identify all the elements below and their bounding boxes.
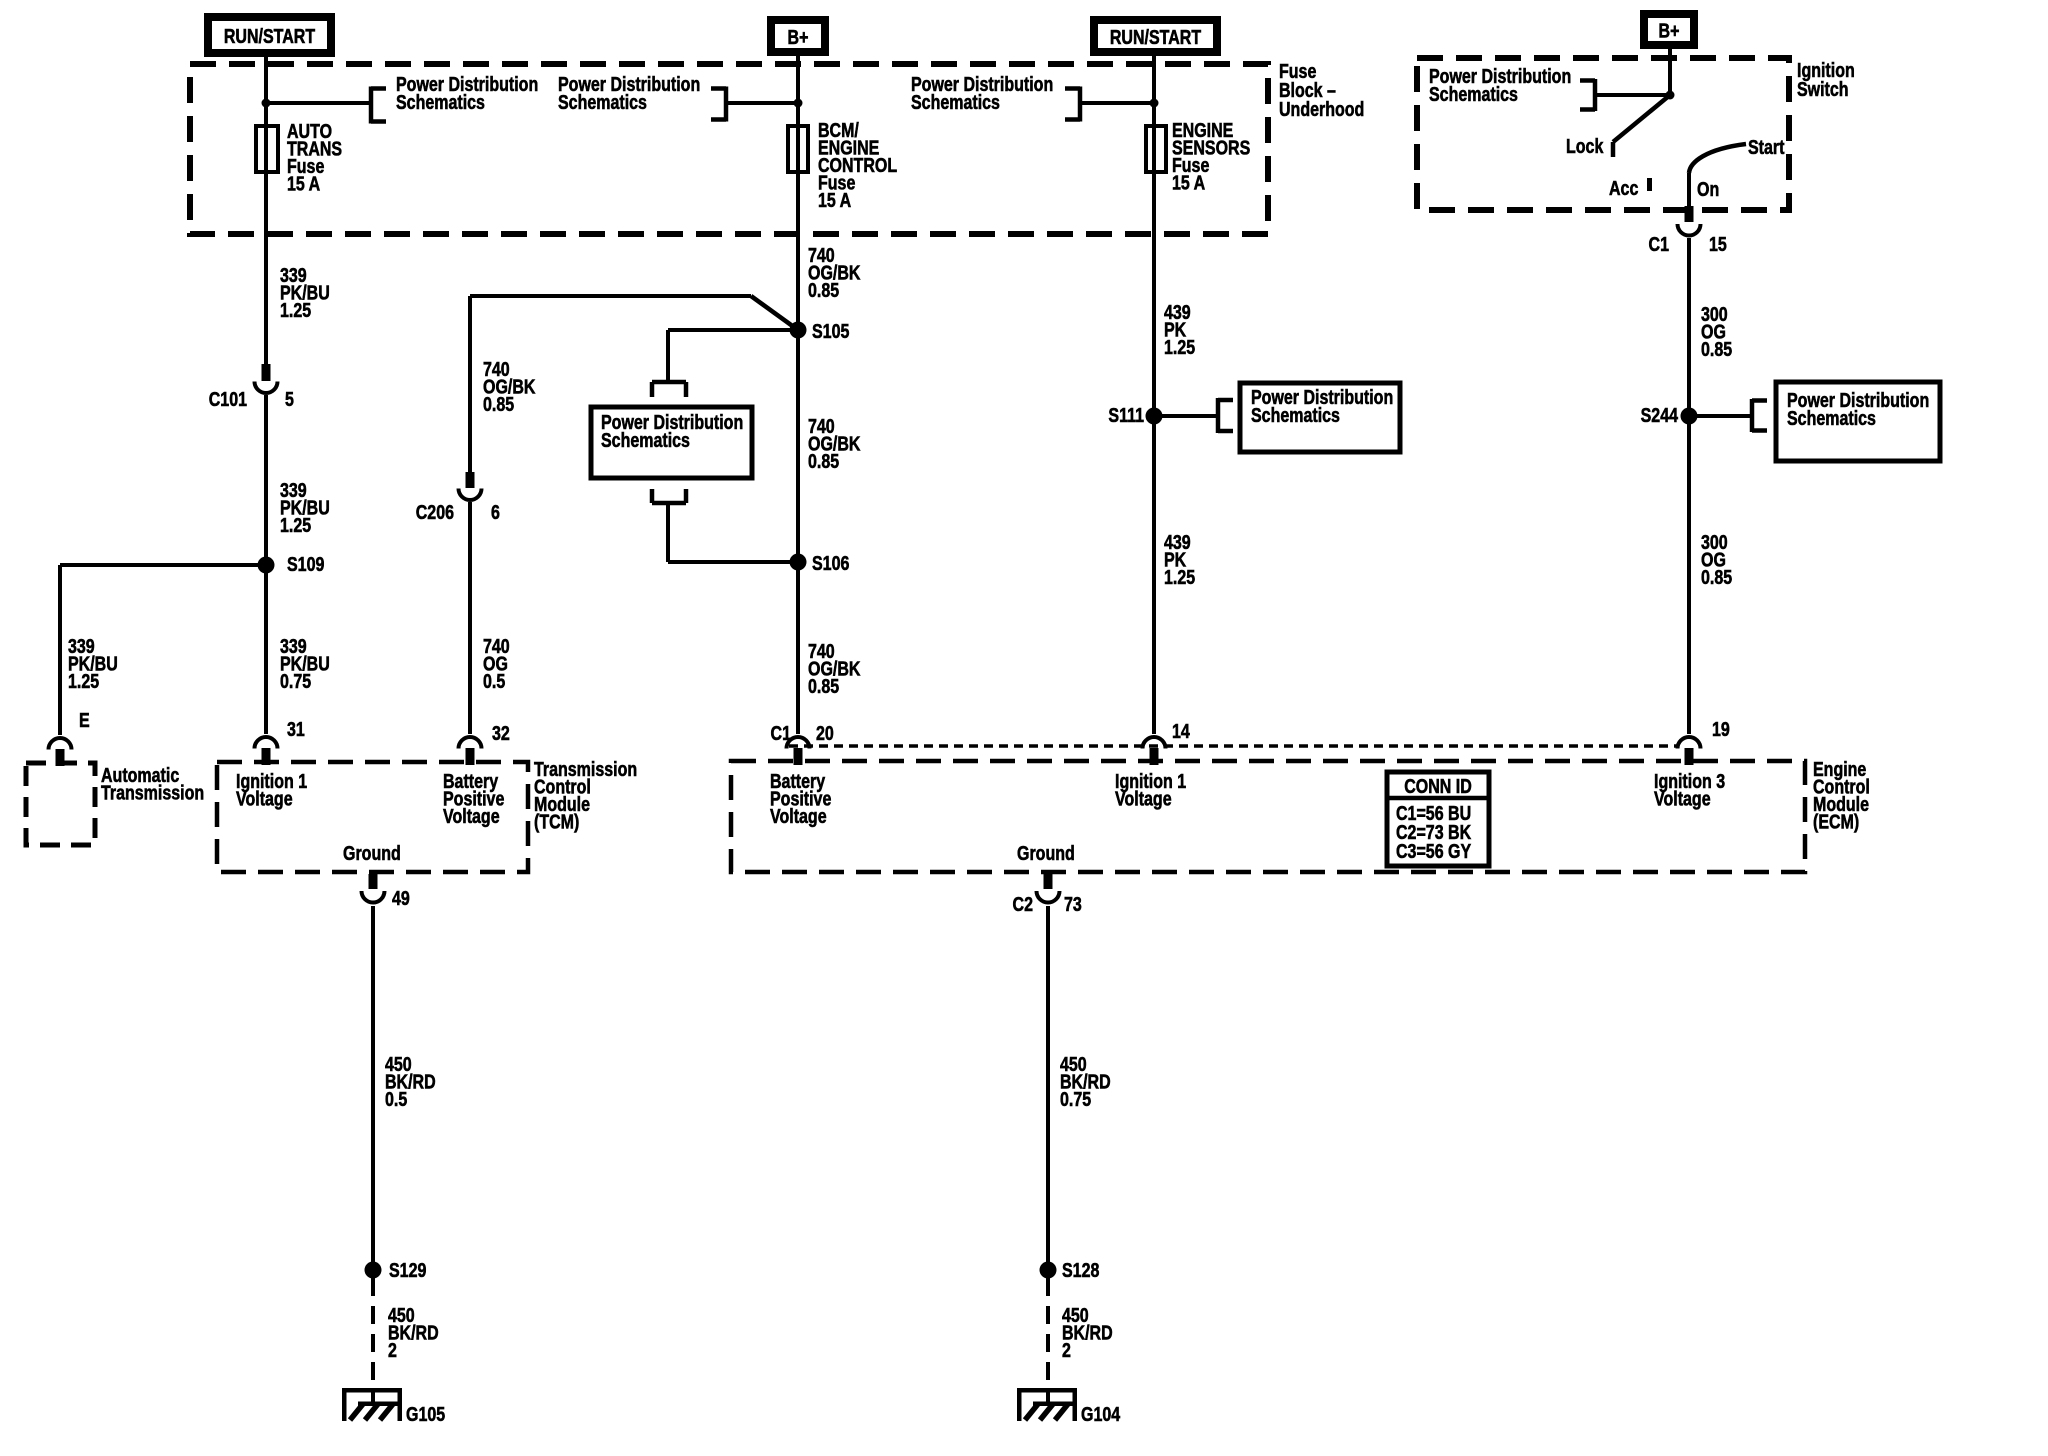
TCM dashed box <box>217 762 528 872</box>
ECM ground pin C2-73 <box>1044 874 1053 889</box>
wire On position down <box>1687 173 1691 206</box>
label 740 OG/BK 0.85 (mid W3) <box>808 415 860 472</box>
label 740 OG/BK 0.85 (lower W3) <box>808 640 860 697</box>
middle Power Distribution Schematics solid box <box>591 407 752 478</box>
svg-text:300OG0.85: 300OG0.85 <box>1701 531 1732 588</box>
svg-text:450BK/RD2: 450BK/RD2 <box>1062 1304 1113 1361</box>
TCM ground pin 49 <box>369 874 378 889</box>
fuse F1 AUTO TRANS 15A <box>256 126 278 172</box>
splice S244 <box>1681 408 1698 425</box>
label ENGINE SENSORS Fuse 15 A <box>1172 119 1250 194</box>
label Lock <box>1566 135 1604 157</box>
svg-text:Power DistributionSchematics: Power DistributionSchematics <box>1429 65 1571 105</box>
label 740 OG/BK 0.85 (W2) <box>483 358 535 415</box>
bracket B (Power Distribution Schematics) <box>724 87 729 122</box>
svg-text:AUTOTRANSFuse15 A: AUTOTRANSFuse15 A <box>287 120 342 195</box>
branch S105 to PDS box <box>668 328 798 332</box>
splice S105 <box>790 322 807 339</box>
terminal RUN/START (right) <box>1094 20 1217 52</box>
wire W3 B+ to ECM pin 20 <box>796 56 800 734</box>
terminal B+ (ignition) <box>1644 14 1694 45</box>
ECM pin 14 connector <box>1143 737 1166 748</box>
wire W5 B+ into ignition switch <box>1668 49 1672 95</box>
ECM dashed box <box>731 761 1805 872</box>
label 740 OG/BK 0.85 (upper W3) <box>808 244 860 301</box>
label Power Distribution Schematics B <box>558 73 700 113</box>
svg-text:IgnitionSwitch: IgnitionSwitch <box>1797 59 1855 100</box>
svg-text:Ignition 3Voltage: Ignition 3Voltage <box>1654 770 1725 810</box>
wire ECM ground to S128 <box>1046 906 1050 1270</box>
svg-text:Ignition 1Voltage: Ignition 1Voltage <box>236 770 307 810</box>
svg-text:S106: S106 <box>812 552 849 574</box>
label Acc <box>1609 177 1638 199</box>
svg-text:S244: S244 <box>1641 404 1678 426</box>
connector C206 pin 6 <box>466 472 475 488</box>
label 339 PK/BU 1.25 (branch) <box>68 635 118 692</box>
svg-text:Power DistributionSchematics: Power DistributionSchematics <box>601 411 743 451</box>
label 339 PK/BU 0.75 <box>280 635 330 692</box>
svg-text:740OG/BK0.85: 740OG/BK0.85 <box>808 640 860 697</box>
wire W2 C206 to TCM pin 32 <box>468 502 472 734</box>
junction node W4 in fuse block <box>1150 99 1159 108</box>
bracket C (Power Distribution Schematics) <box>1078 87 1083 122</box>
connector C1 pin 15 <box>1685 206 1694 222</box>
svg-text:S129: S129 <box>389 1259 426 1281</box>
bracket C wire <box>1080 101 1154 105</box>
label Fuse Block - Underhood <box>1279 60 1364 120</box>
svg-text:20: 20 <box>816 722 834 744</box>
svg-text:S128: S128 <box>1062 1259 1099 1281</box>
splice S129 <box>365 1262 382 1279</box>
label 450 BK/RD 2 (right) <box>1062 1304 1113 1361</box>
label Automatic Transmission <box>101 764 204 804</box>
svg-text:32: 32 <box>492 722 510 744</box>
label 450 BK/RD 2 (left) <box>388 1304 439 1361</box>
wire W1 RUN/START to C101 <box>264 57 268 364</box>
svg-text:19: 19 <box>1712 718 1730 740</box>
svg-text:339PK/BU1.25: 339PK/BU1.25 <box>280 264 330 321</box>
svg-text:Power DistributionSchematics: Power DistributionSchematics <box>396 73 538 113</box>
S111 Power Distribution Schematics solid box <box>1240 383 1400 452</box>
connector E into automatic transmission <box>49 738 72 750</box>
wire W1 tap to bracket A <box>266 101 371 105</box>
label 339 PK/BU 1.25 (upper W1) <box>280 264 330 321</box>
svg-text:C1: C1 <box>1649 233 1669 255</box>
svg-text:AutomaticTransmission: AutomaticTransmission <box>101 764 204 804</box>
terminal RUN/START (left) <box>208 17 331 53</box>
switch arc to Start <box>1689 144 1746 173</box>
connector C101 pin 5 <box>262 364 271 381</box>
svg-text:450BK/RD0.75: 450BK/RD0.75 <box>1060 1053 1111 1110</box>
svg-text:439PK1.25: 439PK1.25 <box>1164 531 1195 588</box>
terminal B+ (left) <box>771 20 825 52</box>
svg-text:300OG0.85: 300OG0.85 <box>1701 303 1732 360</box>
svg-text:S111: S111 <box>1108 404 1144 426</box>
label 450 BK/RD 0.5 <box>385 1053 436 1110</box>
svg-text:RUN/START: RUN/START <box>224 25 315 47</box>
svg-text:On: On <box>1697 178 1719 200</box>
label Engine Control Module (ECM) <box>1813 758 1870 833</box>
svg-text:TransmissionControlModule(TCM): TransmissionControlModule(TCM) <box>534 758 637 833</box>
fuse F3 ENGINE SENSORS 15A <box>1146 126 1166 172</box>
splice S111 <box>1146 408 1163 425</box>
bottom bracket of middle PDS box <box>652 501 686 506</box>
TCM pin 32 connector <box>459 737 482 748</box>
svg-text:S105: S105 <box>812 320 849 342</box>
svg-text:B+: B+ <box>788 26 809 48</box>
label Power Distribution Schematics C <box>911 73 1053 113</box>
svg-text:6: 6 <box>491 501 500 523</box>
bracket D (Power Distribution Schematics) <box>1593 79 1598 111</box>
svg-text:C2: C2 <box>1013 893 1033 915</box>
wire W2 from S105 branch to C206 <box>468 296 472 472</box>
svg-text:439PK1.25: 439PK1.25 <box>1164 301 1195 358</box>
label Transmission Control Module (TCM) <box>534 758 637 833</box>
svg-text:15: 15 <box>1709 233 1727 255</box>
label Start <box>1748 136 1784 158</box>
label 300 OG 0.85 (lower W5) <box>1701 531 1732 588</box>
TCM pin 31 connector <box>255 737 278 748</box>
svg-text:339PK/BU1.25: 339PK/BU1.25 <box>68 635 118 692</box>
ignition switch dashed box <box>1417 58 1789 210</box>
svg-text:Power DistributionSchematics: Power DistributionSchematics <box>558 73 700 113</box>
svg-text:Lock: Lock <box>1566 135 1604 157</box>
wire branch S109 to E <box>60 563 266 567</box>
wire S244 to ECM pin 19 <box>1687 416 1691 734</box>
bracket D wire <box>1595 93 1670 97</box>
splice S109 <box>258 557 275 574</box>
label Ground (TCM) <box>343 842 401 864</box>
dashed wire S128 to G104 <box>1046 1278 1050 1390</box>
svg-text:C206: C206 <box>416 501 454 523</box>
ECM pin C1-20 connector <box>787 737 810 748</box>
svg-text:740OG/BK0.85: 740OG/BK0.85 <box>808 244 860 301</box>
svg-text:5: 5 <box>285 388 294 410</box>
svg-text:31: 31 <box>287 718 305 740</box>
svg-text:339PK/BU1.25: 339PK/BU1.25 <box>280 479 330 536</box>
svg-text:CONN ID: CONN ID <box>1404 775 1472 797</box>
svg-text:FuseBlock –Underhood: FuseBlock –Underhood <box>1279 60 1364 120</box>
label Battery Positive Voltage (ECM) <box>770 770 831 827</box>
svg-text:450BK/RD0.5: 450BK/RD0.5 <box>385 1053 436 1110</box>
svg-text:73: 73 <box>1064 893 1082 915</box>
svg-text:450BK/RD2: 450BK/RD2 <box>388 1304 439 1361</box>
svg-text:Ignition 1Voltage: Ignition 1Voltage <box>1115 770 1186 810</box>
ground G105 <box>371 1389 375 1404</box>
label Ground (ECM) <box>1017 842 1075 864</box>
label Ignition Switch <box>1797 59 1855 100</box>
svg-text:Ground: Ground <box>343 842 401 864</box>
bracket at S244 PDS box <box>1750 399 1755 432</box>
svg-text:S109: S109 <box>287 553 324 575</box>
label 740 OG 0.5 <box>483 635 510 692</box>
label BCM/ENGINE CONTROL Fuse 15 A <box>818 119 897 211</box>
wire W4 RUN/START to ECM pin 14 <box>1152 56 1156 734</box>
label 450 BK/RD 0.75 <box>1060 1053 1111 1110</box>
svg-text:E: E <box>79 709 90 731</box>
ground G104 <box>1046 1389 1050 1404</box>
svg-text:B+: B+ <box>1659 20 1680 42</box>
label On <box>1697 178 1719 200</box>
svg-text:740OG0.5: 740OG0.5 <box>483 635 510 692</box>
label 439 PK 1.25 (lower W4) <box>1164 531 1195 588</box>
bracket B wire <box>726 101 798 105</box>
wire middle PDS box to S106 <box>666 503 670 562</box>
dashed wire S129 to G105 <box>371 1278 375 1390</box>
svg-text:Power DistributionSchematics: Power DistributionSchematics <box>1787 389 1929 429</box>
label Power Distribution Schematics D <box>1429 65 1571 105</box>
svg-text:RUN/START: RUN/START <box>1110 26 1201 48</box>
label 339 PK/BU 1.25 (mid W1) <box>280 479 330 536</box>
Acc contact tick <box>1647 178 1652 191</box>
connector C1 dotted line <box>789 744 1677 748</box>
label Ignition 1 Voltage (TCM) <box>236 770 307 810</box>
label 300 OG 0.85 (upper W5) <box>1701 303 1732 360</box>
svg-text:740OG/BK0.85: 740OG/BK0.85 <box>808 415 860 472</box>
automatic transmission dashed box <box>26 763 95 845</box>
svg-text:EngineControlModule(ECM): EngineControlModule(ECM) <box>1813 758 1870 833</box>
svg-text:Start: Start <box>1748 136 1784 158</box>
svg-text:740OG/BK0.85: 740OG/BK0.85 <box>483 358 535 415</box>
wire W1 C101 to S109 <box>264 395 268 565</box>
svg-text:Ground: Ground <box>1017 842 1075 864</box>
splice S128 <box>1040 1262 1057 1279</box>
label AUTO TRANS Fuse 15 A <box>287 120 342 195</box>
branch S244 to PDS box <box>1689 414 1752 418</box>
svg-text:Power DistributionSchematics: Power DistributionSchematics <box>911 73 1053 113</box>
label Ignition 1 Voltage (ECM) <box>1115 770 1186 810</box>
S244 Power Distribution Schematics solid box <box>1776 382 1940 461</box>
junction node ignition <box>1666 91 1675 100</box>
bracket at S111 PDS box <box>1216 398 1221 433</box>
svg-text:ENGINESENSORSFuse15 A: ENGINESENSORSFuse15 A <box>1172 119 1250 194</box>
svg-text:14: 14 <box>1172 720 1190 742</box>
switch blade to Lock <box>1613 95 1670 142</box>
bracket A (Power Distribution Schematics) <box>369 87 374 124</box>
svg-text:C3=56 GY: C3=56 GY <box>1396 840 1471 862</box>
ECM pin 19 connector <box>1678 737 1701 748</box>
svg-text:G105: G105 <box>406 1403 445 1425</box>
label Battery Positive Voltage (TCM) <box>443 770 504 827</box>
CONN ID box <box>1387 772 1489 866</box>
fuse F2 BCM/ENGINE CONTROL 15A <box>788 126 808 172</box>
label Ignition 3 Voltage (ECM) <box>1654 770 1725 810</box>
svg-text:BatteryPositiveVoltage: BatteryPositiveVoltage <box>770 770 831 827</box>
svg-text:339PK/BU0.75: 339PK/BU0.75 <box>280 635 330 692</box>
svg-text:49: 49 <box>392 887 410 909</box>
svg-text:BatteryPositiveVoltage: BatteryPositiveVoltage <box>443 770 504 827</box>
svg-text:C101: C101 <box>209 388 247 410</box>
splice S106 <box>790 554 807 571</box>
branch S111 to PDS box <box>1154 414 1218 418</box>
label Power Distribution Schematics A <box>396 73 538 113</box>
svg-text:Power DistributionSchematics: Power DistributionSchematics <box>1251 386 1393 426</box>
top bracket of middle PDS box <box>652 380 686 385</box>
svg-text:G104: G104 <box>1081 1403 1120 1425</box>
junction node W3 in fuse block <box>794 99 803 108</box>
svg-text:C1: C1 <box>771 722 791 744</box>
fuse block underhood dashed box <box>190 64 1268 234</box>
junction node W1 in fuse block <box>262 99 271 108</box>
wire C1-15 to S244 <box>1687 238 1691 416</box>
wire W1 S109 to TCM pin 31 <box>264 565 268 734</box>
wire TCM ground to S129 <box>371 906 375 1270</box>
svg-text:BCM/ENGINECONTROLFuse15 A: BCM/ENGINECONTROLFuse15 A <box>818 119 897 211</box>
label 439 PK 1.25 (upper W4) <box>1164 301 1195 358</box>
svg-text:Acc: Acc <box>1609 177 1638 199</box>
